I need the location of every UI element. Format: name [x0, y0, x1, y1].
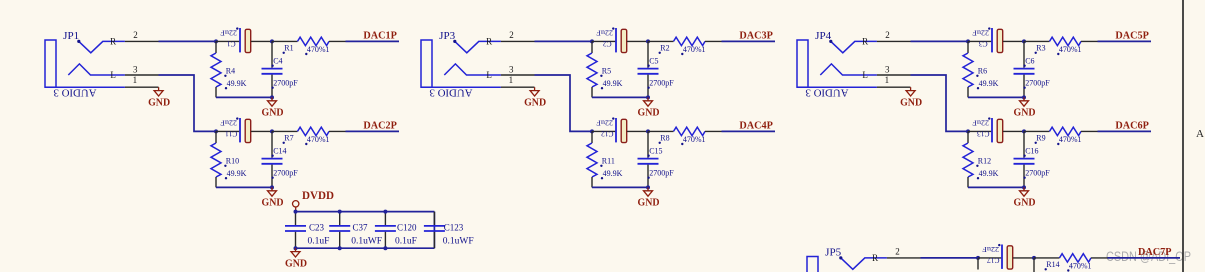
svg-text:GND: GND [148, 96, 170, 108]
svg-text:49.9K: 49.9K [227, 169, 247, 178]
resistor R6 [963, 41, 973, 97]
R9 designator [1035, 134, 1046, 144]
junction at C16 ground rail [1022, 185, 1026, 189]
resistor R11 [587, 131, 597, 187]
svg-text:R: R [872, 253, 878, 263]
C14 value 2700pF [271, 168, 298, 179]
R6 designator [976, 67, 987, 77]
resistor R9 [1024, 127, 1098, 135]
svg-text:R7: R7 [284, 134, 293, 143]
ground under C5 [638, 97, 660, 118]
svg-text:1: 1 [885, 75, 890, 85]
svg-text:22uF: 22uF [596, 119, 613, 128]
svg-text:470%1: 470%1 [307, 135, 330, 144]
svg-text:0.1uWF: 0.1uWF [443, 237, 474, 247]
connector JP4 pin 1 (sleeve) [877, 75, 911, 87]
R11 designator [600, 157, 615, 167]
wire to DAC4P [722, 130, 776, 132]
svg-text:C5: C5 [649, 57, 658, 66]
connector JP4 pin 2 (R) [862, 30, 910, 47]
ground under C4 [262, 97, 284, 118]
svg-text:GND: GND [900, 96, 922, 108]
capacitor C123 [424, 212, 445, 249]
svg-text:22uF: 22uF [972, 29, 989, 38]
capacitor C1 pin 1 [216, 40, 239, 42]
connector JP1 pin 3 (L) [110, 64, 158, 80]
capacitor C1 [240, 28, 272, 53]
capacitor C17 pin 1 [978, 257, 1001, 259]
svg-text:C11: C11 [225, 130, 237, 139]
wire DVDD top rail [296, 211, 435, 213]
svg-text:JP3: JP3 [439, 31, 455, 42]
ground under C6 [1014, 97, 1036, 118]
svg-text:DAC6P: DAC6P [1115, 119, 1149, 131]
wire JP5 R to DAC7P chain [921, 257, 979, 259]
svg-text:470%1: 470%1 [307, 45, 330, 54]
wire bottom rail [592, 186, 648, 188]
svg-text:GND: GND [285, 257, 307, 269]
junction at C12 input [590, 129, 594, 133]
svg-text:0.1uF: 0.1uF [308, 237, 330, 247]
svg-text:L: L [862, 70, 868, 80]
capacitor C15 [638, 131, 659, 187]
svg-text:2700pF: 2700pF [1025, 168, 1050, 177]
C5 designator [647, 57, 658, 67]
C11 value 22uF [220, 117, 238, 127]
ground at JP4 sleeve [900, 87, 922, 108]
R5 value 49.9K [601, 79, 623, 90]
wire bottom rail [968, 186, 1024, 188]
wire C123 right leg [433, 212, 435, 249]
connector JP1 pin 2 (R) [110, 30, 158, 47]
R3 value 470 1% [1057, 45, 1081, 55]
svg-text:1: 1 [509, 75, 514, 85]
svg-text:2700pF: 2700pF [649, 78, 674, 87]
resistor R10 [211, 131, 221, 187]
capacitor C23 [285, 212, 306, 249]
svg-text:2700pF: 2700pF [273, 78, 298, 87]
resistor R17 pin (clipped) [977, 258, 979, 270]
svg-text:R6: R6 [978, 67, 987, 76]
svg-text:R11: R11 [602, 157, 615, 166]
capacitor C17 [1002, 245, 1034, 270]
svg-text:L: L [486, 70, 492, 80]
R8 value 470 1% [681, 135, 705, 145]
junction at C5 ground rail [646, 95, 650, 99]
C1 value 22uF [220, 27, 238, 37]
connector JP4 sleeve [797, 86, 877, 88]
svg-text:JP1: JP1 [63, 31, 79, 42]
ground at JP3 sleeve [524, 87, 546, 108]
wire JP3 L to DAC4P chain [535, 75, 593, 131]
C16 designator [1023, 147, 1038, 157]
C12 value 22uF [596, 117, 614, 127]
connector JP4 pin 3 (L) [862, 64, 910, 80]
C6 value 2700pF [1023, 78, 1050, 89]
svg-text:R9: R9 [1036, 134, 1045, 143]
ground at JP1 sleeve [148, 87, 170, 108]
capacitor C16 [1014, 131, 1035, 187]
R14 designator [1045, 260, 1060, 270]
svg-text:R: R [862, 37, 868, 47]
connector JP3 pin 1 (sleeve) [501, 75, 535, 87]
connector JP4 ring contact L [820, 64, 877, 75]
wire JP3 R to DAC3P chain [535, 40, 593, 42]
svg-text:GND: GND [1014, 197, 1036, 209]
capacitor C120 [375, 212, 396, 249]
junction at C3 input [966, 39, 970, 43]
junction at C17 input [976, 256, 980, 260]
R6 value 49.9K [977, 79, 999, 90]
svg-text:2: 2 [895, 246, 900, 256]
ground under C16 [1014, 187, 1036, 208]
junction bottom rail x=295.5 [294, 246, 298, 250]
svg-text:22uF: 22uF [972, 119, 989, 128]
svg-text:DAC2P: DAC2P [363, 119, 397, 131]
R11 value 49.9K [601, 169, 623, 180]
junction at C3 output [1022, 39, 1026, 43]
svg-text:GND: GND [638, 107, 660, 119]
ground under C14 [262, 187, 284, 208]
C16 value 2700pF [1023, 168, 1050, 179]
connector JP3 pin 2 (R) [486, 30, 534, 47]
svg-text:C16: C16 [1025, 147, 1038, 156]
junction at C13 output [1022, 129, 1026, 133]
resistor R5 [587, 41, 597, 97]
svg-text:470%1: 470%1 [683, 135, 706, 144]
svg-text:470%1: 470%1 [683, 45, 706, 54]
resistor R14 [1034, 254, 1108, 262]
R3 designator [1035, 44, 1046, 54]
svg-text:DAC4P: DAC4P [739, 119, 773, 131]
junction at C2 output [646, 39, 650, 43]
capacitor C2 pin 1 [592, 40, 615, 42]
connector JP3 sleeve [421, 86, 501, 88]
svg-text:1: 1 [133, 75, 138, 85]
svg-text:GND: GND [638, 197, 660, 209]
resistor R4 [211, 41, 221, 97]
connector JP1 pin 1 (sleeve) [125, 75, 159, 87]
C6 designator [1023, 57, 1034, 67]
sheet border right edge [1182, 0, 1184, 272]
svg-text:2: 2 [133, 30, 138, 40]
junction at C15 ground rail [646, 185, 650, 189]
svg-text:R2: R2 [660, 44, 669, 53]
svg-text:2: 2 [885, 30, 890, 40]
svg-text:3: 3 [509, 64, 514, 74]
svg-text:470%1: 470%1 [1059, 135, 1082, 144]
svg-text:R5: R5 [602, 67, 611, 76]
ground under C23 [285, 248, 307, 269]
C15 value 2700pF [647, 168, 674, 179]
capacitor C4 [262, 41, 283, 97]
svg-text:49.9K: 49.9K [979, 169, 999, 178]
connector JP5 pin 2 (R) [872, 246, 920, 263]
connector JP3 pin 3 (L) [486, 64, 534, 80]
junction at C13 input [966, 129, 970, 133]
C4 value 2700pF [271, 78, 298, 89]
C2 value 22uF [596, 27, 614, 37]
capacitor C14 [262, 131, 283, 187]
junction top rail x=385.4 [383, 210, 387, 214]
C15 designator [647, 147, 662, 157]
R12 value 49.9K [977, 169, 999, 180]
connector JP1 sleeve [45, 86, 125, 88]
svg-text:470%1: 470%1 [1059, 45, 1082, 54]
svg-text:R4: R4 [226, 67, 235, 76]
junction at C11 input [214, 129, 218, 133]
junction at C6 ground rail [1022, 95, 1026, 99]
R2 value 470 1% [681, 45, 705, 55]
svg-text:A: A [1196, 128, 1204, 140]
svg-text:AUDIO 3: AUDIO 3 [429, 86, 472, 98]
connector JP5 jack body [807, 257, 818, 272]
junction at C4 ground rail [270, 95, 274, 99]
wire bottom rail [968, 96, 1024, 98]
svg-text:0.1uWF: 0.1uWF [351, 237, 382, 247]
capacitor C5 [638, 41, 659, 97]
wire to DAC1P [346, 40, 400, 42]
resistor R8 [648, 127, 722, 135]
wire bottom rail [216, 186, 272, 188]
svg-text:R14: R14 [1046, 260, 1059, 269]
C3 value 22uF [972, 27, 990, 37]
R2 designator [659, 44, 670, 54]
svg-text:DVDD: DVDD [302, 190, 334, 202]
R10 value 49.9K [225, 169, 247, 180]
R7 value 470 1% [305, 135, 329, 145]
resistor R1 [272, 37, 346, 45]
junction at C14 ground rail [270, 185, 274, 189]
svg-text:C123: C123 [444, 222, 464, 232]
junction at C2 input [590, 39, 594, 43]
svg-text:AUDIO 3: AUDIO 3 [805, 86, 848, 98]
wire to DAC7P [1108, 257, 1181, 259]
wire JP1 L to DAC2P chain [159, 75, 217, 131]
svg-text:470%1: 470%1 [1069, 261, 1092, 270]
resistor R3 [1024, 37, 1098, 45]
junction at C17 output [1032, 256, 1036, 260]
wire to DAC2P [346, 130, 400, 132]
R7 designator [283, 134, 294, 144]
svg-text:C120: C120 [397, 222, 417, 232]
junction at C12 output [646, 129, 650, 133]
wire to DAC3P [722, 40, 776, 42]
svg-text:R3: R3 [1036, 44, 1045, 53]
R1 designator [283, 44, 294, 54]
capacitor C2 [616, 28, 648, 53]
resistor R12 [963, 131, 973, 187]
connector JP4 jack body [797, 40, 808, 87]
svg-text:DAC1P: DAC1P [363, 29, 397, 41]
capacitor C12 pin 1 [592, 130, 615, 132]
svg-text:R12: R12 [978, 157, 991, 166]
svg-text:R10: R10 [226, 157, 239, 166]
capacitor C12 [616, 118, 648, 143]
resistor R7 [272, 127, 346, 135]
svg-text:22uF: 22uF [596, 29, 613, 38]
svg-text:DAC3P: DAC3P [739, 29, 773, 41]
R1 value 470 1% [305, 45, 329, 55]
svg-text:49.9K: 49.9K [227, 79, 247, 88]
svg-text:C1: C1 [227, 40, 236, 49]
R9 value 470 1% [1057, 135, 1081, 145]
wire JP4 R to DAC5P chain [911, 40, 969, 42]
capacitor C11 [240, 118, 272, 143]
C14 designator [271, 147, 286, 157]
junction bottom rail x=385.4 [383, 246, 387, 250]
svg-text:2: 2 [509, 30, 514, 40]
wire bottom rail [216, 96, 272, 98]
svg-text:GND: GND [1014, 107, 1036, 119]
R5 designator [600, 67, 611, 77]
capacitor C13 pin 1 [968, 130, 991, 132]
wire JP4 L to DAC6P chain [911, 75, 969, 131]
connector JP4 tip contact R [829, 40, 877, 53]
svg-text:R8: R8 [660, 134, 669, 143]
svg-text:2700pF: 2700pF [1025, 78, 1050, 87]
C13 value 22uF [972, 117, 990, 127]
R10 designator [224, 157, 239, 167]
capacitor C3 [992, 28, 1024, 53]
svg-text:0.1uF: 0.1uF [395, 237, 417, 247]
C4 designator [271, 57, 282, 67]
svg-text:C13: C13 [977, 130, 990, 139]
svg-text:C3: C3 [979, 40, 988, 49]
junction top rail x=339.7 [338, 210, 342, 214]
svg-text:R: R [110, 37, 116, 47]
junction top rail x=295.5 [294, 210, 298, 214]
R4 designator [224, 67, 235, 77]
connector JP3 ring contact L [444, 64, 501, 75]
svg-text:GND: GND [262, 107, 284, 119]
svg-text:C2: C2 [603, 40, 612, 49]
capacitor C11 pin 1 [216, 130, 239, 132]
svg-text:R: R [486, 37, 492, 47]
svg-text:C23: C23 [309, 222, 325, 232]
capacitor C6 [1014, 41, 1035, 97]
svg-text:22uF: 22uF [220, 119, 237, 128]
svg-text:3: 3 [133, 64, 138, 74]
svg-text:DAC7P: DAC7P [1138, 246, 1172, 258]
capacitor C13 [992, 118, 1024, 143]
svg-text:C15: C15 [649, 147, 662, 156]
svg-text:L: L [110, 70, 116, 80]
connector JP3 tip contact R [453, 40, 501, 53]
resistor R2 [648, 37, 722, 45]
connector JP5 tip contact R [839, 256, 887, 269]
ground under C15 [638, 187, 660, 208]
svg-text:GND: GND [262, 197, 284, 209]
junction at C1 input [214, 39, 218, 43]
svg-text:2700pF: 2700pF [273, 168, 298, 177]
connector JP1 tip contact R [77, 40, 125, 53]
svg-text:R1: R1 [284, 44, 293, 53]
svg-text:22uF: 22uF [220, 29, 237, 38]
R12 designator [976, 157, 991, 167]
svg-text:C17: C17 [987, 256, 1000, 265]
svg-text:JP5: JP5 [825, 247, 841, 258]
capacitor C37 [329, 212, 350, 249]
wire ground bottom rail [296, 247, 435, 249]
wire to DAC6P [1098, 130, 1152, 132]
svg-text:49.9K: 49.9K [603, 79, 623, 88]
svg-text:C6: C6 [1025, 57, 1034, 66]
junction at C1 output [270, 39, 274, 43]
connector JP3 jack body [421, 40, 432, 87]
svg-text:AUDIO 3: AUDIO 3 [53, 86, 96, 98]
wire JP1 R to DAC1P chain [159, 40, 217, 42]
svg-text:JP4: JP4 [815, 31, 832, 42]
wire to DAC5P [1098, 40, 1152, 42]
power port DVDD [293, 190, 335, 212]
R4 value 49.9K [225, 79, 247, 90]
svg-text:GND: GND [524, 96, 546, 108]
svg-text:DAC5P: DAC5P [1115, 29, 1149, 41]
capacitor C20 pin (clipped) [1033, 258, 1035, 272]
svg-text:C37: C37 [353, 222, 369, 232]
C17 value 22uF [982, 244, 1000, 254]
connector JP1 jack body [45, 40, 56, 87]
svg-text:49.9K: 49.9K [603, 169, 623, 178]
wire bottom rail [592, 96, 648, 98]
R8 designator [659, 134, 670, 144]
R14 value 470 1% [1067, 261, 1091, 271]
svg-text:C12: C12 [601, 130, 614, 139]
svg-text:49.9K: 49.9K [979, 79, 999, 88]
junction at C11 output [270, 129, 274, 133]
svg-text:2700pF: 2700pF [649, 168, 674, 177]
svg-text:3: 3 [885, 64, 890, 74]
svg-text:C4: C4 [273, 57, 282, 66]
capacitor C3 pin 1 [968, 40, 991, 42]
junction bottom rail x=339.7 [338, 246, 342, 250]
connector JP1 ring contact L [68, 64, 125, 75]
svg-text:22uF: 22uF [982, 245, 999, 254]
C5 value 2700pF [647, 78, 674, 89]
svg-text:C14: C14 [273, 147, 286, 156]
